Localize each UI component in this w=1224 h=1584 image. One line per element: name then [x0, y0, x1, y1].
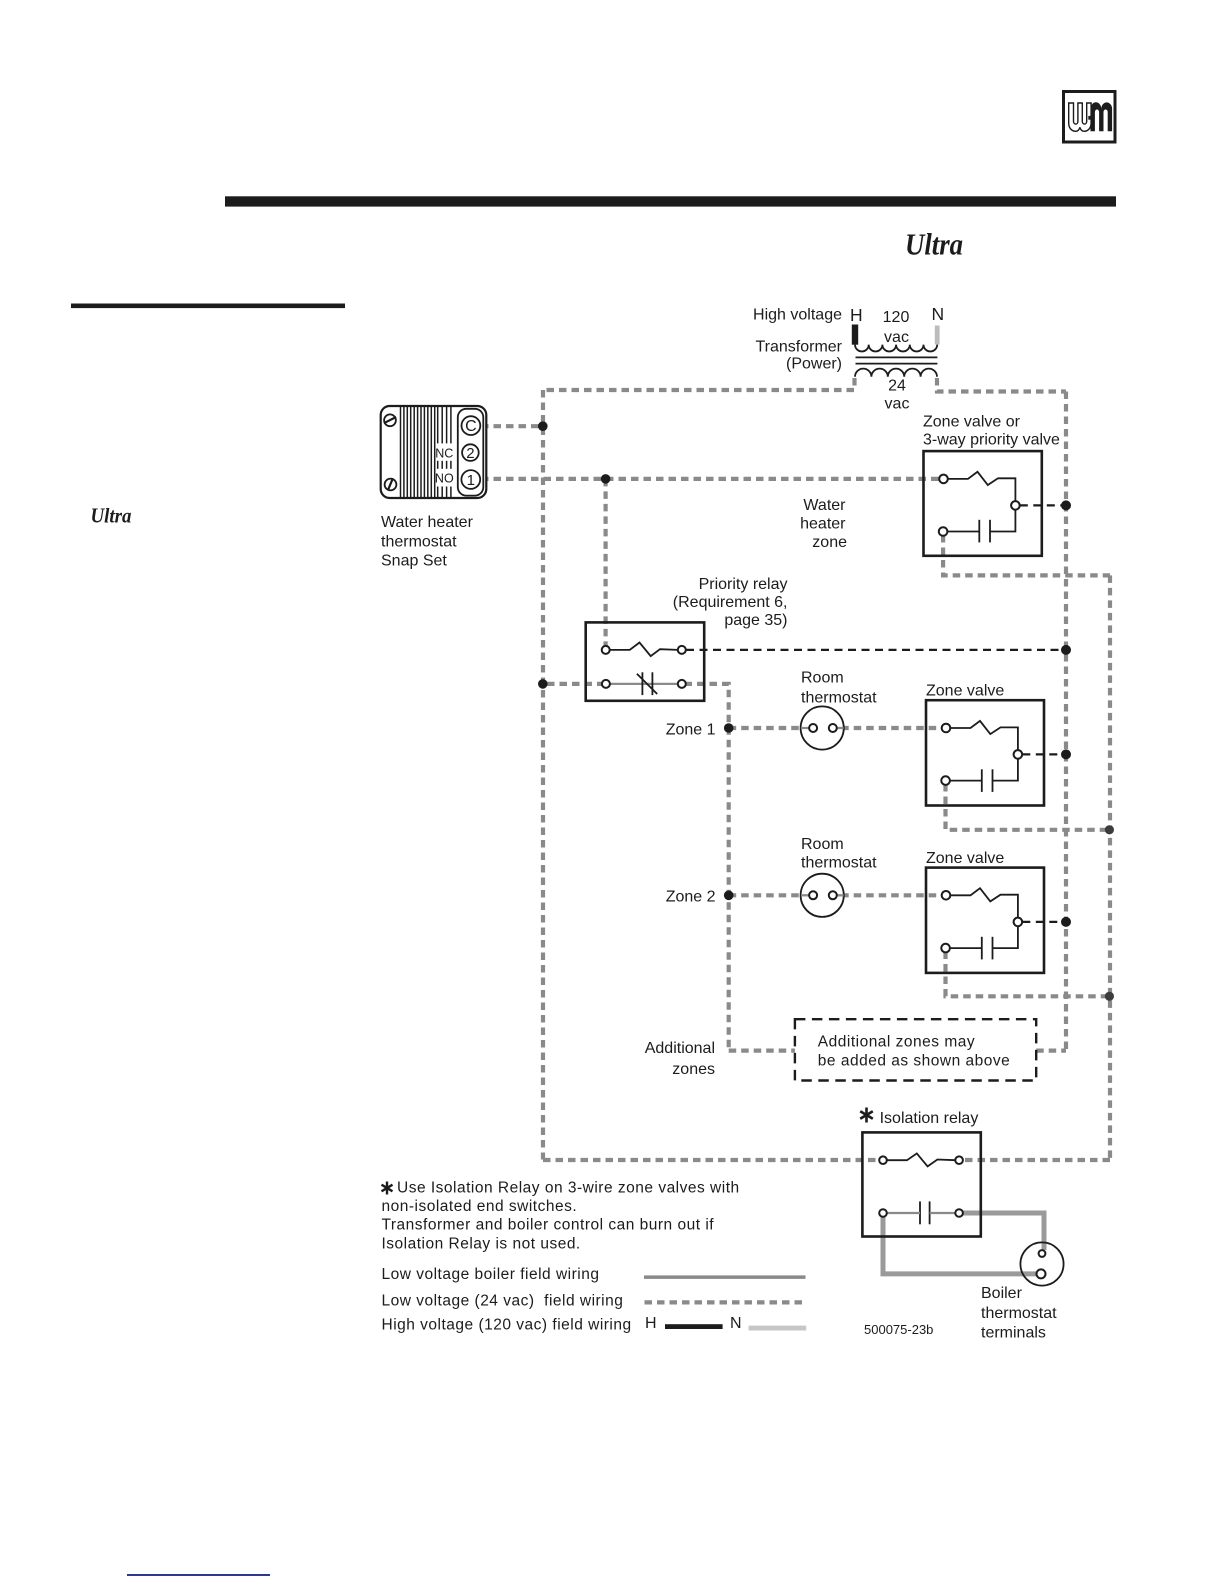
junction node water heater valve switch / bus — [1061, 500, 1071, 510]
relay switch polyline — [887, 1153, 956, 1166]
logo letter w (outlined) — [1069, 103, 1091, 131]
wire zone valve 1 return — [946, 784, 1111, 830]
junction node zone 2 — [724, 891, 734, 901]
terminal circles — [602, 646, 610, 654]
svg-text:(Power): (Power) — [786, 356, 842, 373]
svg-text:Isolation Relay is not used.: Isolation Relay is not used. — [382, 1235, 581, 1252]
svg-text:Room: Room — [801, 670, 844, 687]
svg-text:Water heater: Water heater — [381, 514, 474, 531]
svg-text:Priority relay: Priority relay — [699, 576, 788, 593]
terminal block outline — [458, 409, 484, 496]
NC contact wire — [610, 683, 679, 685]
relay coil capacitor bars — [919, 1201, 921, 1224]
transformer T1 high-voltage H lead — [852, 325, 858, 345]
svg-text:Zone valve: Zone valve — [926, 850, 1004, 867]
svg-text:High voltage: High voltage — [753, 307, 842, 324]
wire additional zones box to right bus — [1036, 1048, 1066, 1052]
svg-text:C: C — [465, 418, 477, 435]
svg-text:Room: Room — [801, 836, 844, 853]
svg-text:page 35): page 35) — [724, 612, 787, 629]
transformer T1 neutral N lead — [935, 326, 940, 345]
header thick rule — [225, 196, 1116, 206]
screw bottom-left — [385, 479, 397, 491]
zone valve box (zone 1) — [926, 700, 1044, 805]
svg-text:Use Isolation Relay on 3-wire: Use Isolation Relay on 3-wire zone valve… — [397, 1179, 740, 1196]
svg-text:heater: heater — [800, 516, 846, 533]
svg-text:Snap Set: Snap Set — [381, 552, 447, 569]
svg-text:(Requirement 6,: (Requirement 6, — [673, 594, 788, 611]
wire thermostat 1 to water heater zone valve — [481, 477, 941, 481]
svg-text:Zone valve or: Zone valve or — [923, 413, 1021, 430]
transformer T1 primary winding — [855, 345, 937, 352]
room thermostat zone 2 — [801, 874, 844, 917]
interrupted fins (bottom) — [437, 487, 439, 498]
end switch polyline — [947, 472, 1015, 501]
wire (black dashed) priority relay switch to bus — [686, 649, 1063, 651]
wire left bus to priority relay NC terminal — [547, 682, 603, 686]
svg-text:Zone valve: Zone valve — [926, 683, 1004, 700]
svg-text:Ultra: Ultra — [91, 504, 132, 528]
wire right bus vertical (zone valve supply) — [1064, 392, 1068, 1051]
svg-text:thermostat: thermostat — [801, 689, 877, 706]
svg-text:Transformer and boiler control: Transformer and boiler control can burn … — [382, 1217, 715, 1234]
svg-text:vac: vac — [884, 329, 909, 346]
logo letter m (solid) — [1091, 102, 1113, 131]
junction node zone valve 1 switch / bus — [1061, 749, 1071, 759]
terminal circles — [939, 475, 948, 484]
priority relay box — [586, 622, 705, 700]
svg-text:N: N — [730, 1315, 742, 1332]
svg-text:500075-23b: 500075-23b — [864, 1322, 933, 1337]
additional zones dashed box — [795, 1019, 1036, 1080]
wire zone 2 feed to room thermostat and zone valve — [729, 893, 943, 897]
wire 24vac top bus left (transformer secondary left to left bus) — [543, 378, 855, 390]
asterisk for footnote — [382, 1182, 393, 1195]
svg-text:Zone 2: Zone 2 — [666, 889, 716, 906]
wire (black dashed) water heater zone valve end switch to bus — [1020, 504, 1063, 506]
svg-text:zone: zone — [812, 534, 847, 551]
svg-text:vac: vac — [885, 396, 910, 413]
legend swatch: high voltage H (black) — [665, 1324, 723, 1329]
svg-text:Additional zones may: Additional zones may — [818, 1033, 975, 1050]
svg-text:zones: zones — [672, 1061, 715, 1078]
zone valve box (zone 2) — [926, 868, 1044, 973]
svg-text:NC: NC — [435, 447, 453, 461]
wire left bus vertical — [541, 390, 545, 1160]
terminal 2 circle — [462, 444, 479, 461]
relay coil wire — [887, 1212, 956, 1214]
wire thermostat C to left bus — [481, 424, 543, 428]
isolation relay box — [862, 1132, 980, 1236]
svg-text:thermostat: thermostat — [981, 1305, 1057, 1322]
relay switch polyline — [610, 643, 679, 657]
junction node priority relay switch / bus — [1061, 645, 1071, 655]
wire boiler field wiring from isolation relay to lower boiler terminal — [883, 1215, 1036, 1274]
wire (black dashed) zone valve 1 end switch to bus — [1022, 753, 1063, 755]
svg-text:Ultra: Ultra — [905, 227, 963, 262]
motor capacitor bars — [978, 520, 980, 543]
thermostat fins — [401, 407, 451, 498]
bottom blue link line — [127, 1574, 270, 1576]
wire water heater valve return — [943, 535, 1110, 575]
wire zone 1 feed to room thermostat and zone valve — [729, 726, 943, 730]
screw top-left — [384, 414, 396, 426]
zone valve or 3-way priority valve box (water heater zone) — [924, 451, 1042, 556]
svg-text:thermostat: thermostat — [801, 855, 877, 872]
wire zone bus to additional zones box — [729, 1048, 795, 1052]
svg-text:1: 1 — [467, 472, 475, 489]
junction node thermostat C / left bus — [538, 421, 548, 431]
wire node1 bus down to priority relay coil-side terminal — [603, 479, 607, 650]
left thin rule — [71, 304, 345, 309]
svg-text:Additional: Additional — [645, 1040, 715, 1057]
NC contact bars and slash — [641, 672, 643, 695]
svg-text:Low voltage (24 vac) field wi: Low voltage (24 vac) field wiring — [382, 1293, 624, 1310]
transformer T1 secondary winding (24 vac) — [855, 369, 937, 377]
Weil-McLain logo box — [1064, 92, 1116, 143]
svg-text:High voltage (120 vac) field w: High voltage (120 vac) field wiring — [382, 1316, 632, 1333]
wire left bus bottom to isolation relay left terminal — [543, 1158, 879, 1162]
motor wire — [947, 510, 1016, 532]
svg-text:thermostat: thermostat — [381, 533, 457, 550]
svg-text:NO: NO — [435, 472, 454, 486]
wire 24vac top bus right (transformer secondary right to right bus) — [937, 378, 1066, 392]
junction node zone 1 return / right bus — [1105, 825, 1114, 834]
wire boiler field wiring from isolation relay contact to boiler terminal — [961, 1213, 1044, 1250]
junction node zone 1 — [724, 723, 734, 733]
boiler thermostat terminals circle — [1020, 1242, 1063, 1285]
svg-text:non-isolated end switches.: non-isolated end switches. — [382, 1198, 578, 1215]
room thermostat zone 1 — [801, 706, 844, 749]
wire zone valve 2 return — [946, 952, 1111, 997]
asterisk for isolation relay label — [860, 1108, 873, 1123]
svg-text:Low voltage boiler field wirin: Low voltage boiler field wiring — [382, 1266, 600, 1283]
svg-text:Water: Water — [803, 497, 846, 514]
svg-text:Zone 1: Zone 1 — [666, 721, 716, 738]
interrupted fins (top) — [437, 407, 439, 444]
svg-text:Boiler: Boiler — [981, 1285, 1023, 1302]
terminal 1 circle — [461, 470, 480, 489]
interrupted fins (middle dashes) — [437, 461, 439, 469]
legend swatch: low voltage boiler field wiring (solid gray) — [644, 1275, 806, 1279]
junction node thermostat 1 / relay feed — [601, 474, 611, 484]
junction node zone valve 2 switch / bus — [1061, 917, 1071, 927]
svg-text:H: H — [645, 1315, 657, 1332]
junction node zone 2 return / right bus — [1105, 992, 1114, 1001]
wire right return bus vertical — [1108, 575, 1112, 1160]
svg-text:2: 2 — [466, 445, 474, 462]
logo hyphen — [1088, 116, 1093, 120]
svg-text:Transformer: Transformer — [755, 339, 842, 356]
terminal C circle — [462, 416, 481, 435]
water heater thermostat snap set body — [381, 406, 487, 498]
legend swatch: low voltage 24vac field wiring (dashed gray) — [645, 1300, 807, 1304]
wire (black dashed) zone valve 2 end switch to bus — [1022, 921, 1063, 923]
svg-text:24: 24 — [888, 378, 906, 395]
svg-text:terminals: terminals — [981, 1325, 1046, 1342]
junction node left bus / priority relay NC — [538, 679, 548, 689]
svg-text:N: N — [932, 304, 945, 324]
svg-text:3-way priority valve: 3-way priority valve — [923, 431, 1060, 448]
svg-text:be added as shown above: be added as shown above — [818, 1053, 1010, 1070]
wire return bus to isolation relay right terminal — [963, 1158, 1110, 1162]
terminal circles — [879, 1156, 887, 1164]
legend swatch: high voltage N (light gray) — [749, 1326, 807, 1331]
transformer T1 core — [856, 356, 938, 358]
svg-text:Isolation relay: Isolation relay — [880, 1110, 979, 1127]
svg-text:120: 120 — [883, 309, 910, 326]
wire priority relay NC out to zone bus — [685, 684, 729, 1051]
svg-text:H: H — [850, 305, 863, 325]
